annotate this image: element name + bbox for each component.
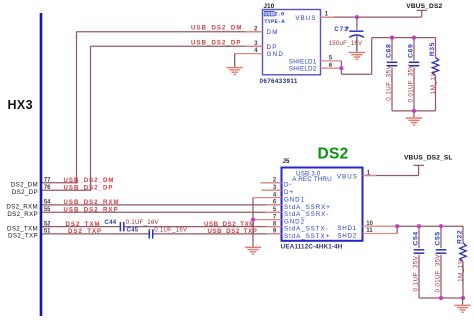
ground below SHD RC network <box>462 298 464 305</box>
svg-text:USB2.0: USB2.0 <box>264 12 284 18</box>
wire SHIELD1 J10 pin 5 <box>321 60 342 62</box>
J5 pin 6 stub <box>266 204 282 206</box>
J5 pin 2 stub D- <box>260 182 281 184</box>
svg-text:USB_DS2_DP: USB_DS2_DP <box>191 40 241 47</box>
svg-text:SHD2: SHD2 <box>337 232 357 239</box>
svg-text:C54: C54 <box>413 231 420 245</box>
capacitor C45 <box>148 229 150 238</box>
wire GND2 J5 pin 7 <box>253 219 282 221</box>
capacitor C54 <box>414 226 425 298</box>
capacitor C69 <box>409 38 420 111</box>
svg-text:52: 52 <box>44 221 51 227</box>
svg-text:0.1UF_16V: 0.1UF_16V <box>154 226 188 233</box>
svg-text:C69: C69 <box>408 44 415 58</box>
svg-text:DS2_DM: DS2_DM <box>11 182 38 189</box>
svg-text:DS2_TXM: DS2_TXM <box>66 221 101 228</box>
svg-text:VBUS_DS2_SL: VBUS_DS2_SL <box>404 154 453 161</box>
svg-text:USB_DS2_DM: USB_DS2_DM <box>191 25 242 32</box>
wire bottom rail of SHD RC network <box>419 297 463 299</box>
junction node C54 top <box>417 224 421 228</box>
svg-text:77: 77 <box>44 178 51 184</box>
junction node C55 bottom <box>439 296 443 300</box>
connector J5 body <box>282 168 363 241</box>
resistor R35 <box>432 38 438 111</box>
svg-text:C68: C68 <box>386 44 393 58</box>
svg-text:1M_1%: 1M_1% <box>458 258 465 282</box>
wire top rail of SHD RC network <box>397 225 463 227</box>
junction node C69 top <box>412 36 416 40</box>
wire USB_DS2_RXM (HX3 pin 54 to J5 pin 6) <box>42 204 282 206</box>
capacitor C55 <box>436 226 447 298</box>
junction node at C73 tap <box>355 15 359 19</box>
J5 pin 3 stub D+ <box>261 189 281 191</box>
svg-text:USB_DS2_TXP: USB_DS2_TXP <box>208 228 258 235</box>
svg-text:0.1UF_35V: 0.1UF_35V <box>386 65 393 101</box>
junction node C68 top <box>390 36 394 40</box>
wire USB_DS2_DP (HX3 pin 76 to J10 DP riser) <box>42 46 263 190</box>
J5 pin 9 stub <box>266 233 282 235</box>
svg-text:C45: C45 <box>127 226 139 233</box>
junction node shield pins <box>339 66 343 70</box>
capacitor C73 (polarized) <box>356 17 358 30</box>
svg-text:0.1UF_35V: 0.1UF_35V <box>413 255 420 291</box>
wire VBUS from J5 pin 1 <box>363 165 424 175</box>
svg-text:HX3: HX3 <box>8 98 34 112</box>
svg-text:StdA_SSTX+: StdA_SSTX+ <box>284 233 330 240</box>
HX3 controller chip edge U-HX3 <box>40 13 43 316</box>
svg-text:USB_DS2_RXP: USB_DS2_RXP <box>64 206 119 213</box>
capacitor C68 <box>387 38 398 111</box>
connector J10 body <box>263 10 321 75</box>
wire shield junction riser <box>341 38 371 75</box>
svg-text:StdA_SSRX-: StdA_SSRX- <box>284 211 329 218</box>
svg-text:TYPE-A: TYPE-A <box>264 19 285 25</box>
wire ground drop at J5 <box>252 198 254 247</box>
J10 part text USB2.0 highlighted <box>264 11 275 16</box>
J5 pin 1 stub <box>363 175 377 177</box>
svg-text:GND: GND <box>267 51 285 58</box>
svg-text:GND1: GND1 <box>284 197 305 204</box>
svg-text:DS2: DS2 <box>318 146 349 163</box>
svg-text:0676433911: 0676433911 <box>260 78 298 85</box>
wire VBUS from J10 pin 1 <box>321 10 428 17</box>
svg-text:54: 54 <box>44 200 51 206</box>
svg-text:USB_DS2_TXM: USB_DS2_TXM <box>204 221 255 228</box>
svg-text:DS2_TXP: DS2_TXP <box>8 233 38 240</box>
wire bottom rail of shield RC network <box>392 110 436 112</box>
svg-text:J10: J10 <box>264 3 275 10</box>
svg-text:USB_DS2_DM: USB_DS2_DM <box>64 177 115 184</box>
svg-text:0.1UF_16V: 0.1UF_16V <box>126 219 160 226</box>
resistor R22 <box>460 226 466 298</box>
ground below shield RC network <box>413 111 415 117</box>
svg-text:StdA_SSRX+: StdA_SSRX+ <box>284 204 331 211</box>
svg-text:A REC THRU: A REC THRU <box>292 176 332 183</box>
svg-text:51: 51 <box>44 229 51 235</box>
svg-text:R22: R22 <box>457 230 464 244</box>
ground below C73 <box>349 51 365 53</box>
svg-text:VBUS_DS2: VBUS_DS2 <box>406 3 442 10</box>
wire top rail of shield RC network <box>372 37 436 39</box>
junction node network ground <box>412 109 416 113</box>
wire SHIELD2 J10 pin 6 <box>321 67 342 69</box>
svg-text:J5: J5 <box>283 158 290 165</box>
junction node ground corner <box>461 296 465 300</box>
svg-text:GND2: GND2 <box>284 219 305 226</box>
wire SHD2 J5 pin 11 <box>363 226 398 233</box>
svg-text:DS2_TXM: DS2_TXM <box>7 225 38 232</box>
svg-text:VBUS: VBUS <box>337 174 358 181</box>
svg-text:0.01UF_35V: 0.01UF_35V <box>435 254 442 293</box>
wire USB_DS2_TXM (C44 to J5 pin 8) <box>124 226 282 228</box>
svg-text:76: 76 <box>44 185 51 191</box>
wire USB_DS2_TXP (C45 to J5 pin 9) <box>153 233 282 235</box>
ground at J10 GND pin <box>227 67 243 69</box>
J5 pin 5 stub <box>266 211 282 213</box>
svg-text:USB_DS2_RXM: USB_DS2_RXM <box>64 199 120 206</box>
svg-text:SHD1: SHD1 <box>337 225 357 232</box>
J10 pin 2 stub <box>245 31 263 33</box>
wire USB_DS2_DM (HX3 pin 77 to J10 DM riser) <box>42 32 263 183</box>
wire DS2_TXM (HX3 pin 52 to C44) <box>42 226 120 228</box>
capacitor C44 <box>119 222 121 231</box>
wire SHD1 J5 pin 10 <box>363 225 398 227</box>
svg-text:150uF_16V: 150uF_16V <box>329 40 363 47</box>
svg-text:R35: R35 <box>429 42 436 56</box>
svg-text:DS2_RXP: DS2_RXP <box>7 211 38 218</box>
wire USB_DS2_RXP (HX3 pin 55 to J5 pin 5) <box>42 211 282 213</box>
J10 pin 1 stub <box>321 16 335 18</box>
svg-text:SHIELD1: SHIELD1 <box>289 58 317 65</box>
junction node GND2 <box>251 218 255 222</box>
J5 pin 8 stub <box>266 226 282 228</box>
wire GND1 J5 pin 4 <box>253 197 282 199</box>
svg-text:USB_DS2_DP: USB_DS2_DP <box>64 184 114 191</box>
svg-text:1M_1%: 1M_1% <box>430 71 437 95</box>
svg-text:C44: C44 <box>105 219 117 226</box>
svg-text:SHIELD2: SHIELD2 <box>289 66 317 73</box>
svg-text:VBUS: VBUS <box>295 15 316 22</box>
svg-text:DM: DM <box>267 29 279 36</box>
ground below J5 <box>245 246 261 248</box>
J10 pin 4 stub wire to ground <box>235 53 263 55</box>
svg-text:StdA_SSTX-: StdA_SSTX- <box>284 226 329 233</box>
J10 pin 3 stub <box>245 45 263 47</box>
svg-text:DP: DP <box>267 44 278 51</box>
svg-text:DS2_RXM: DS2_RXM <box>6 204 38 211</box>
svg-text:55: 55 <box>44 207 51 213</box>
wire DS2_TXP (HX3 pin 51 to C45) <box>42 233 149 235</box>
svg-text:+: + <box>346 25 350 32</box>
svg-text:C55: C55 <box>435 231 442 245</box>
junction node C55 top <box>439 224 443 228</box>
svg-text:DS2_DP: DS2_DP <box>12 189 38 196</box>
J10 ground drop wire <box>234 54 236 67</box>
svg-text:D-: D- <box>284 182 292 189</box>
svg-text:UEA1112C-4HK1-4H: UEA1112C-4HK1-4H <box>281 244 343 251</box>
svg-text:0.01UF_35V: 0.01UF_35V <box>408 64 415 103</box>
junction node SHD join <box>395 224 399 228</box>
svg-text:DS2_TXP: DS2_TXP <box>68 228 102 235</box>
svg-text:D+: D+ <box>284 189 294 196</box>
